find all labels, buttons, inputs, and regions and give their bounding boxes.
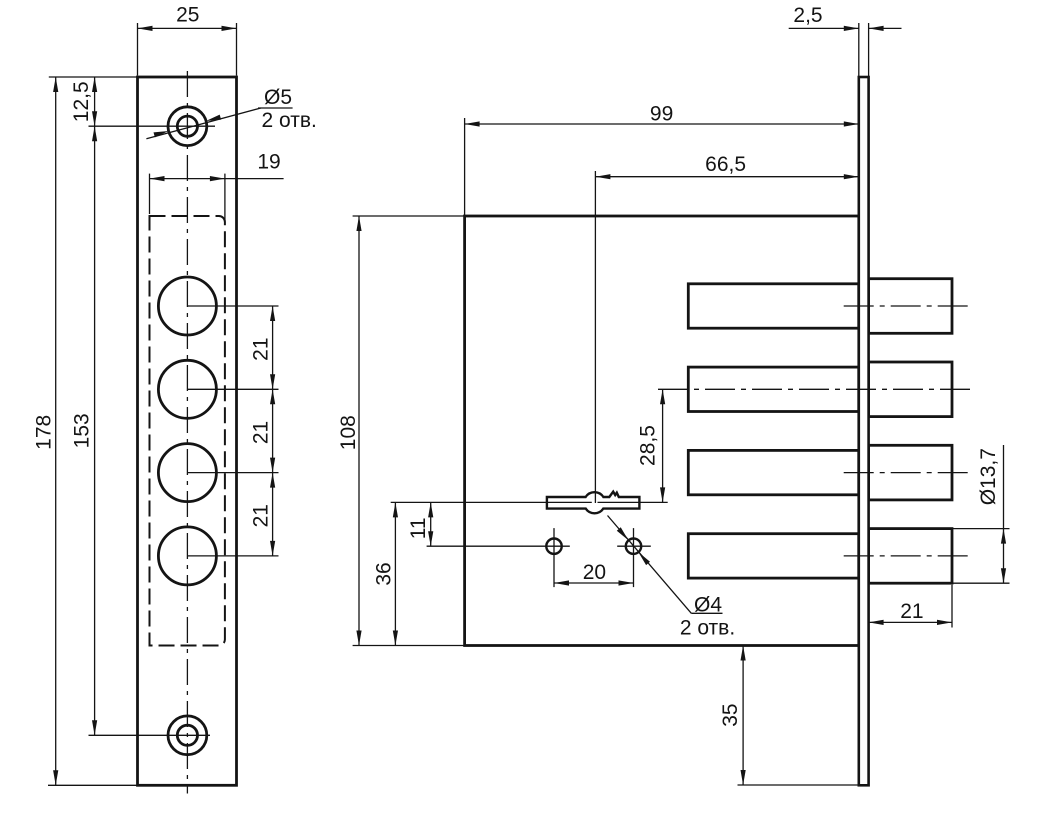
dim 21 bolt arrow left [869,620,884,625]
dim O13,7 arrow bottom [1001,568,1006,583]
dim 21 bolt extension [951,585,953,628]
key cam profile [547,492,640,514]
svg-text:19: 19 [257,151,280,174]
bolt 4 tail (inside body) [688,534,859,578]
dim O13,7 extension bottom [953,582,1010,584]
dim 19 line [150,178,284,180]
cam horizontal centerline left [391,501,592,503]
dim 19 arrow left [150,176,165,181]
svg-text:Ø4: Ø4 [694,593,722,616]
leader line O4 [608,516,692,614]
dim 178 arrow bottom [53,770,58,785]
dim 21-3 arrow down [270,541,275,556]
dim 108 arrow top [356,216,361,231]
dim 2,5 extension left [858,23,860,77]
dim 28,5 arrow bottom [660,487,665,502]
fixing hole right [626,539,641,554]
dim 19 extension left [149,174,151,214]
dim 99 line [465,123,859,125]
bolt 4 head (protruding) [869,529,952,584]
svg-text:153: 153 [71,413,94,448]
dim 11 arrow top [428,502,433,517]
dim 178 arrow top [53,77,58,92]
dim 21-2 arrow down [270,458,275,473]
leader O5 arrow upper-right [206,115,221,121]
dim 153 arrow top [92,126,97,141]
dim 28,5 line [662,389,664,502]
dim 12,5 line [94,77,96,126]
dim 108 line [358,216,360,646]
bolt 1 centerline [844,305,971,307]
bolt hole circle 4 [158,527,216,585]
dim 25 arrow left [138,26,153,31]
svg-text:28,5: 28,5 [637,425,660,466]
dim 153 line [94,126,96,735]
bolt hole circle 3 [158,444,216,502]
dim 21-1 arrow up [270,306,275,321]
bolt 1 head (protruding) [869,279,952,334]
dim 20 arrow right [619,580,634,585]
bolt hole 1 centerline extension [187,305,278,307]
svg-text:178: 178 [33,415,56,450]
dim O13,7 line [1003,445,1005,583]
dim 21 bolt arrow right [937,620,952,625]
svg-text:21: 21 [250,421,273,444]
dim 35 line [742,646,744,786]
dim 12,5 arrow top [92,77,97,92]
dim 66,5 line [595,176,858,178]
fixing hole left horizontal centerline [427,545,570,547]
dim 21-1 arrow down [270,374,275,389]
dim 28,5 arrow top [660,389,665,404]
dim 12,5 top extension [49,76,138,78]
fixing hole left vertical centerline [553,528,555,587]
dim 36 line [394,502,396,645]
dim 2,5 arrow right [869,26,884,31]
dim 178 line [55,77,57,785]
leader O4 underline [691,612,722,614]
dim 99 arrow left [465,121,480,126]
bolt hole 3 centerline extension [187,472,278,474]
svg-text:108: 108 [337,415,360,450]
dim 35 bottom extension [738,784,859,786]
svg-text:36: 36 [373,562,396,585]
dim 25 extension left [137,23,139,76]
top screw hole [177,116,197,136]
bolt hole circle 1 [158,277,216,335]
dim O13,7 extension top [953,528,1010,530]
dim 108 top extension [353,215,465,217]
dim 20 line [554,582,634,584]
bolt 2 centerline [658,388,971,390]
cam horizontal centerline right [598,501,668,503]
dim 66,5 arrow left [595,174,610,179]
dim 2,5 extension right [868,23,870,77]
bottom screw hole countersink [168,716,207,755]
dim 25 line [138,27,237,29]
bottom screw hole [177,725,197,745]
dim 19 arrow right [210,176,225,181]
dim O13,7 arrow top [1001,529,1006,544]
bolt 3 head (protruding) [869,445,952,500]
svg-text:25: 25 [176,4,199,27]
dim 99 arrow right [844,121,859,126]
bolt 2 tail (inside body) [688,367,859,411]
dim 35 arrow bottom [741,770,746,785]
svg-text:66,5: 66,5 [705,153,746,176]
svg-text:21: 21 [900,600,923,623]
dim 21 line (left view) [272,306,274,556]
dim 36 arrow bottom [393,631,398,646]
leader O5 arrow lower-left [154,131,169,137]
leader line O5 [146,108,261,139]
dim 12,5 arrow bottom [92,111,97,126]
dim 36 arrow top [393,502,398,517]
svg-text:2,5: 2,5 [793,4,822,27]
dim 66,5 left extension (vertical) [594,171,596,503]
leader O4 arrow lower [638,552,650,565]
svg-text:Ø13,7: Ø13,7 [977,448,1000,505]
bolt hole 2 centerline extension [187,388,278,390]
dim 19 extension right [224,174,226,222]
leader O5 underline [258,107,293,109]
dim 153 arrow bottom [92,720,97,735]
bolt 1 tail (inside body) [688,284,859,328]
svg-text:21: 21 [250,504,273,527]
lock body outline (side view) [465,216,859,646]
svg-text:2 отв.: 2 отв. [680,617,735,640]
bolt 4 centerline [844,555,971,557]
bolt 3 centerline [844,472,971,474]
dim 2,5 line right [869,27,902,29]
dim 20 arrow left [554,580,569,585]
fixing hole left [546,539,561,554]
svg-text:21: 21 [250,337,273,360]
dim 25 extension right [236,23,238,76]
fixing hole right horizontal centerline [617,545,651,547]
svg-text:99: 99 [650,103,673,126]
leader O4 arrow upper [617,527,629,540]
faceplate vertical centerline [186,71,188,794]
dim 66,5 arrow right [844,174,859,179]
dim 11 arrow bottom [428,531,433,546]
faceplate outline (front view) [138,77,237,785]
svg-text:2 отв.: 2 отв. [262,109,317,132]
dim 21-3 arrow up [270,473,275,488]
bolt 3 tail (inside body) [688,450,859,494]
svg-text:11: 11 [407,517,430,539]
svg-text:Ø5: Ø5 [264,86,292,109]
faceplate (side view) [859,77,869,785]
fixing hole right vertical centerline [633,528,635,587]
dashed pocket outline [150,216,225,646]
dim 108 arrow bottom [356,631,361,646]
bolt hole circle 2 [158,360,216,418]
dim 178 bottom extension [48,784,138,786]
svg-text:12,5: 12,5 [70,81,93,122]
dim 108 bottom extension [353,645,465,647]
top hole horizontal centerline [89,125,216,127]
top screw hole countersink [168,107,207,146]
svg-text:35: 35 [719,703,742,726]
dim 25 arrow right [222,26,237,31]
bottom hole horizontal centerline [89,734,211,736]
dim 21-2 arrow up [270,389,275,404]
dim 21 bolt line [869,621,952,623]
dim 35 arrow top [741,646,746,661]
dim 99 left extension [464,118,466,216]
dim 11 line [430,502,432,546]
svg-text:20: 20 [583,561,606,584]
bolt hole 4 centerline extension [187,555,278,557]
dim 2,5 arrow left [844,26,859,31]
dim 2,5 line left [789,27,859,29]
bolt 2 head (protruding) [869,362,952,417]
